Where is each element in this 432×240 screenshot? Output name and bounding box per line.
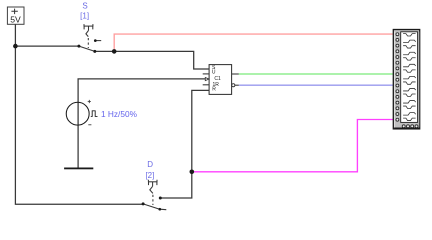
svg-text:U: U bbox=[212, 70, 216, 76]
svg-text:R: R bbox=[212, 87, 216, 93]
svg-text:D: D bbox=[147, 160, 153, 169]
svg-text:[2]: [2] bbox=[145, 171, 154, 180]
svg-text:S: S bbox=[82, 2, 87, 11]
svg-text:[1]: [1] bbox=[80, 11, 89, 20]
svg-text:1 Hz/50%: 1 Hz/50% bbox=[101, 109, 138, 119]
svg-text:5V: 5V bbox=[10, 15, 21, 25]
